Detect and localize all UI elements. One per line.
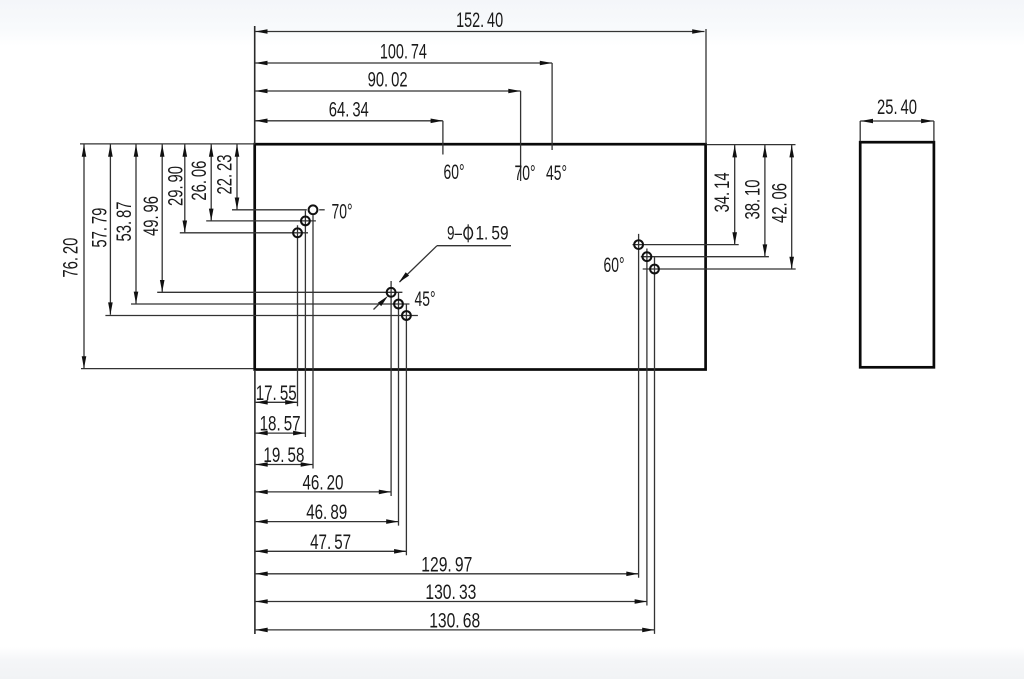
plate front view outline	[255, 144, 706, 369]
dimension 64.34 (top)	[255, 98, 443, 154]
dimension 42.06 (right)	[769, 145, 794, 269]
svg-text:1. 59: 1. 59	[476, 224, 509, 245]
svg-text:9–: 9–	[447, 224, 462, 245]
top extension line to left dims	[80, 143, 255, 145]
angle label 70 deg (top)	[515, 162, 536, 185]
dimension 29.90 (left)	[165, 144, 188, 233]
svg-text:22. 23: 22. 23	[214, 155, 237, 195]
angle label 45 deg (top)	[546, 162, 567, 185]
svg-text:38. 10: 38. 10	[742, 180, 765, 220]
svg-text:42. 06: 42. 06	[769, 183, 792, 223]
svg-text:130. 33: 130. 33	[425, 581, 476, 604]
bottom-left extension line of plate	[81, 368, 254, 370]
svg-text:45°: 45°	[415, 288, 436, 311]
svg-text:46. 89: 46. 89	[306, 501, 347, 524]
hole RA (129.97, 34.14)	[633, 234, 739, 578]
dimension 34.14 (right)	[711, 145, 737, 245]
svg-text:53. 87: 53. 87	[113, 202, 136, 242]
hole M1 (46.20, 49.96)	[157, 281, 402, 496]
dimension 76.20 (left)	[60, 144, 87, 369]
svg-text:34. 14: 34. 14	[711, 172, 734, 212]
left extension line below plate	[254, 371, 256, 634]
dimension 26.06 (left)	[188, 144, 214, 221]
svg-text:90. 02: 90. 02	[368, 69, 408, 92]
svg-text:45°: 45°	[546, 162, 567, 185]
dimension 152.40 (top)	[255, 9, 706, 144]
dimension 49.96 (left)	[140, 144, 164, 292]
dimension 19.58 (bottom)	[255, 444, 313, 467]
dimension 25.40 (side view width)	[860, 96, 934, 141]
angle label 60 deg (top)	[444, 161, 465, 184]
svg-text:70°: 70°	[515, 162, 536, 185]
svg-text:47. 57: 47. 57	[310, 531, 351, 554]
svg-text:26. 06: 26. 06	[188, 161, 211, 201]
svg-text:49. 96: 49. 96	[140, 196, 163, 236]
dimension 100.74 (top)	[255, 41, 552, 151]
hole L3 (17.55, 29.90)	[180, 225, 308, 406]
dimension 22.23 (left)	[214, 144, 240, 210]
dimension 57.79 (left)	[88, 144, 112, 315]
dimension 130.33 (bottom)	[255, 581, 647, 604]
svg-text:130. 68: 130. 68	[429, 609, 480, 632]
hole size callout 9-phi1.59 with leader	[374, 224, 512, 310]
dimension 46.20 (bottom)	[255, 471, 391, 494]
svg-text:76. 20: 76. 20	[60, 238, 83, 278]
svg-text:70°: 70°	[332, 201, 353, 224]
svg-text:152. 40: 152. 40	[456, 9, 503, 32]
hole RC (130.68, 42.06)	[643, 257, 796, 634]
svg-text:29. 90: 29. 90	[165, 166, 188, 206]
angle label 60 deg (right hole group)	[604, 254, 625, 277]
dimension 90.02 (top)	[255, 69, 521, 182]
dimension 17.55 (bottom)	[255, 382, 298, 405]
dimension 53.87 (left)	[113, 144, 139, 304]
angle label 45 deg (middle hole group)	[415, 288, 436, 311]
hole RB (130.33, 38.10)	[641, 249, 769, 606]
svg-text:64. 34: 64. 34	[329, 98, 369, 121]
top extension line to right dims	[707, 144, 796, 146]
svg-text:57. 79: 57. 79	[88, 208, 111, 248]
dimension 129.97 (bottom)	[255, 553, 639, 576]
dimension 46.89 (bottom)	[255, 501, 399, 524]
dimension 130.68 (bottom)	[255, 609, 655, 632]
svg-text:129. 97: 129. 97	[421, 553, 472, 576]
svg-text:60°: 60°	[444, 161, 465, 184]
angle label 70 deg (left hole group)	[332, 201, 353, 224]
hole M3 (47.57, 57.79)	[105, 305, 418, 556]
hole L2 (18.57, 26.06)	[206, 211, 316, 437]
svg-text:25. 40: 25. 40	[877, 96, 917, 119]
hole L1 (19.58, 22.23)	[232, 205, 325, 468]
svg-text:17. 55: 17. 55	[256, 382, 297, 405]
svg-text:19. 58: 19. 58	[263, 444, 304, 467]
svg-text:60°: 60°	[604, 254, 625, 277]
svg-text:46. 20: 46. 20	[303, 471, 344, 494]
extension line above top-left corner	[254, 26, 256, 144]
hole M2 (46.89, 53.87)	[131, 293, 410, 526]
dimension 47.57 (bottom)	[255, 531, 407, 554]
svg-text:100. 74: 100. 74	[380, 41, 427, 64]
dimension 18.57 (bottom)	[255, 413, 306, 436]
plate side view outline	[860, 142, 934, 367]
dimension 38.10 (right)	[742, 145, 768, 257]
svg-text:18. 57: 18. 57	[260, 413, 301, 436]
